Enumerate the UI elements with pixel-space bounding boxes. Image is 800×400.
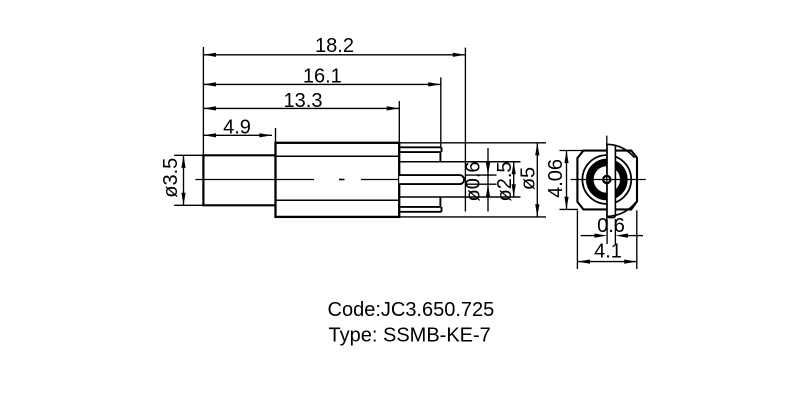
4.1 extension right [636,210,638,269]
4.06 extension top [560,150,584,152]
insulator top line + O2.5 extension [399,161,520,163]
top leg step line [399,151,440,153]
O3.5 extension line bottom [174,204,203,206]
dim 4.9 line [203,134,272,136]
svg-text:ø5: ø5 [518,167,540,190]
centerline of side view [196,179,315,181]
svg-text:ø3.5: ø3.5 [160,158,182,198]
body circle arc top [606,144,634,158]
svg-text:0.6: 0.6 [597,215,625,237]
4.1 extension left [576,211,578,270]
arrows 0.6 (outside) [595,234,608,238]
dim O5 line [536,143,538,217]
pin extension line top [466,174,497,176]
circle O3.5 front [582,155,631,204]
body circle arc bottom [606,202,636,216]
dim 0.6 left shaft [581,235,595,237]
dim O3.5 line [183,155,185,205]
dim 13.3 line [203,107,399,109]
crosshair vertical centerline [606,136,608,224]
svg-text:ø2.5: ø2.5 [494,161,516,201]
barrel O3.5 bottom edge [202,204,275,206]
dim 0.6 right shaft [627,235,643,237]
pin extension line bottom [466,183,497,185]
svg-text:16.1: 16.1 [303,66,342,88]
arrows O0.6 (outside) [486,163,490,176]
center contact circle [603,176,610,183]
svg-text:13.3: 13.3 [284,90,323,112]
dim O0.6 line [487,148,489,212]
top leg outer right edge [441,147,443,152]
O5 extension line top [399,142,546,144]
4.06 extension bottom [560,208,579,210]
shell ring annulus [590,162,624,196]
body hex outline [276,143,400,217]
flange outline [577,151,637,210]
svg-text:18.2: 18.2 [315,35,354,57]
svg-text:4.9: 4.9 [223,116,251,138]
slot extension right [614,219,616,244]
O3.5 extension line top [174,154,203,156]
arrows 4.1 [577,260,590,264]
dim 4.06 line [566,151,568,210]
slot right edge [614,145,616,216]
top leg inner right edge [439,152,441,162]
extension line x=275.5 for 4.9 [275,128,277,143]
svg-text:4.1: 4.1 [594,240,622,262]
svg-text:4.06: 4.06 [545,159,567,198]
dim O2.5 line [513,162,515,197]
arrows 4.9 [203,133,216,137]
slot extension left [606,219,608,244]
extension line x=440.8 for 16.1 [440,77,442,147]
arrows 18.2 [203,53,216,57]
crosshair horizontal centerline [571,179,646,181]
svg-text:Type: SSMB-KE-7: Type: SSMB-KE-7 [329,325,491,347]
O5 extension line bottom [399,216,546,218]
slot left edge [606,144,608,216]
dim 4.1 line [577,261,636,263]
slot bottom round end [607,215,615,217]
body hex flat line upper [276,155,400,157]
svg-text:Code:JC3.650.725: Code:JC3.650.725 [328,299,495,321]
insulator bottom line + O2.5 extension [399,196,520,198]
leg slot strip [607,144,615,218]
bottom leg inner right edge [439,197,441,207]
extension line x=399.3 for 13.3 [398,101,400,143]
top leg outer line [399,146,441,148]
bottom leg outer right edge [441,207,443,212]
arrows 13.3 [203,106,216,110]
center pin O0.6 capsule [399,175,464,184]
bottom leg step line [399,206,440,208]
extension line left (x=203.4) / barrel left edge [202,47,204,205]
arrows O5 [535,143,539,156]
arrows O2.5 [512,162,516,175]
bottom leg outer line [399,211,441,213]
body hex flat line lower [276,199,400,201]
barrel O3.5 top edge [202,154,275,156]
arrows 16.1 [203,82,216,86]
dim 18.2 line [203,54,465,56]
dim 16.1 line [203,83,440,85]
arrows O3.5 [181,155,185,168]
arrows 4.06 [564,151,568,164]
extension line x=465.4 for 18.2 [464,48,466,212]
svg-text:ø0.6: ø0.6 [463,161,485,201]
